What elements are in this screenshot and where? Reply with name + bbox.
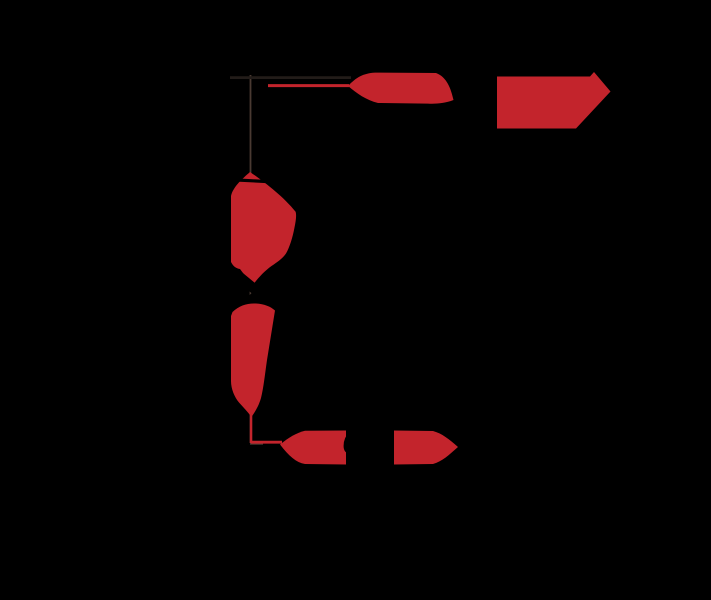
resistor-style red thin tail line (top)	[268, 84, 349, 87]
layer line 6	[276, 301, 640, 318]
base plate top rear edge (thick bar)	[459, 346, 608, 353]
base plate front face (dark slab)	[252, 346, 459, 420]
layer line 1 (crosses red apex)	[237, 180, 642, 201]
layer line 7	[275, 325, 640, 342]
svg-text:A: A	[225, 75, 237, 94]
red fat arrow up (shape1)	[231, 172, 296, 286]
big red force arrow (pointing right)	[497, 72, 611, 129]
red dimension arrow right (pointing right)	[394, 431, 458, 465]
wire: top plate line	[230, 76, 351, 79]
red arrow v (pointing left, tapered tail)	[348, 73, 454, 104]
wire: bottom corner toe	[250, 443, 263, 445]
red fat arrow down (shape2)	[231, 303, 275, 417]
node y label (bold X-ish glyph)	[235, 273, 287, 316]
layer line 4	[278, 253, 640, 270]
svg-text:dx: dx	[343, 411, 391, 464]
wire: red foot line from needle to dimension arrow	[251, 441, 282, 444]
wire: left vertical edge line	[250, 75, 252, 443]
layer line 5	[277, 277, 640, 294]
node v (small mark below)	[235, 122, 240, 139]
svg-text:F: F	[446, 60, 502, 151]
layer line 2	[280, 205, 641, 223]
red dimension arrow left (pointing left)	[280, 431, 346, 465]
layer line 3	[279, 229, 640, 246]
